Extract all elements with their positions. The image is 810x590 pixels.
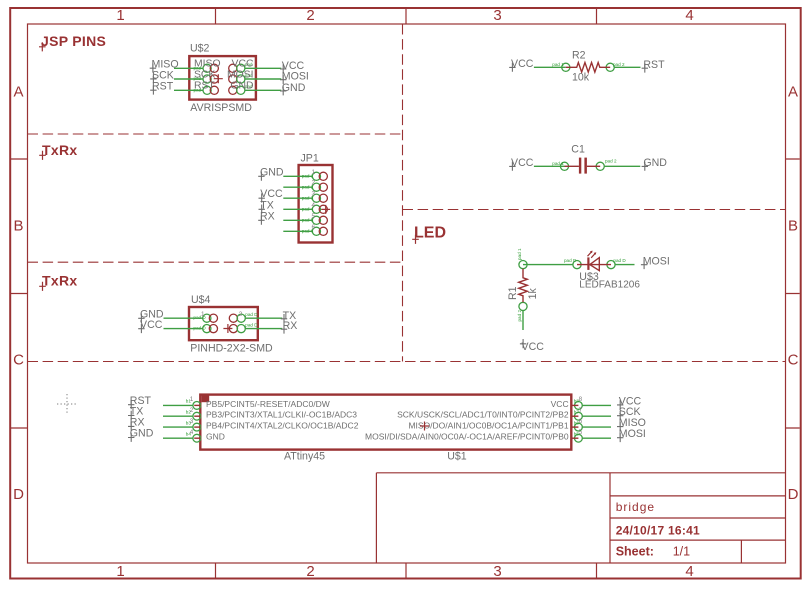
svg-text:A: A	[788, 84, 798, 101]
wire GND to U$1	[163, 437, 193, 439]
svg-text:D: D	[788, 486, 799, 503]
capacitor C1	[552, 143, 617, 173]
svg-text:6: 6	[579, 418, 583, 425]
svg-text:1/1: 1/1	[673, 544, 690, 558]
net label VCC	[509, 58, 534, 72]
net label RX	[281, 320, 298, 333]
net label VCC	[138, 319, 163, 333]
svg-text:7: 7	[579, 407, 583, 414]
wire JP1 pin 3	[283, 197, 312, 199]
section divider dashed above LED	[403, 209, 786, 211]
net label SCK	[150, 69, 174, 83]
wire R1 to LED	[523, 264, 573, 266]
wire JP1 pin 2	[283, 186, 312, 188]
svg-text:C: C	[13, 352, 24, 369]
svg-text:MISO/DO/AIN1/OC0B/OC1A/PCINT1/: MISO/DO/AIN1/OC0B/OC1A/PCINT1/PB1	[408, 421, 568, 431]
svg-text:1: 1	[116, 7, 124, 24]
net label GND	[258, 167, 284, 181]
wire U$2 to MOSI	[245, 78, 281, 80]
svg-text:SCK/USCK/SCL/ADC1/T0/INT0/PCIN: SCK/USCK/SCL/ADC1/T0/INT0/PCINT2/PB2	[397, 410, 569, 420]
svg-text:1k: 1k	[527, 288, 539, 300]
svg-text:1: 1	[116, 563, 124, 580]
svg-text:TxRx: TxRx	[42, 142, 77, 158]
svg-text:U$1: U$1	[447, 451, 467, 463]
svg-text:pad 2: pad 2	[613, 62, 625, 67]
wire U$1 to MISO	[582, 426, 611, 428]
svg-text:pad 1: pad 1	[552, 161, 564, 166]
svg-text:2: 2	[306, 563, 314, 580]
net label VCC	[509, 157, 534, 171]
svg-text:D: D	[13, 486, 24, 503]
svg-text:GND: GND	[282, 82, 306, 94]
wire GND to U$4	[164, 317, 203, 319]
section divider dashed below TxRx 1	[28, 261, 403, 263]
wire C1 to GND	[604, 165, 640, 167]
svg-text:U$2: U$2	[190, 43, 210, 55]
svg-text:pad 2: pad 2	[517, 310, 522, 322]
net label MISO	[617, 417, 646, 431]
svg-text:MOSI: MOSI	[282, 71, 309, 83]
wire LED to MOSI	[615, 264, 634, 266]
svg-text:JP1: JP1	[301, 152, 319, 164]
svg-text:B: B	[13, 218, 23, 235]
wire U$2 to VCC	[245, 67, 281, 69]
net label MOSI	[280, 71, 309, 84]
origin crosshair marker	[57, 394, 77, 414]
svg-text:pad 1: pad 1	[552, 62, 564, 67]
svg-text:pad D: pad D	[564, 258, 577, 263]
LED U$3 LEDFAB1206	[564, 251, 640, 291]
net label GND	[138, 309, 164, 323]
net label RST	[128, 395, 152, 409]
net label RST	[642, 59, 666, 72]
resistor R1 1k	[507, 248, 539, 321]
svg-text:SCK: SCK	[152, 69, 174, 81]
svg-text:MOSI: MOSI	[643, 255, 670, 267]
svg-text:3: 3	[312, 191, 316, 198]
net label GND	[128, 428, 154, 442]
frame column ticks bottom	[216, 563, 597, 578]
wire U$2 to GND	[245, 89, 281, 91]
svg-text:8: 8	[579, 396, 583, 403]
frame row ticks left	[11, 159, 28, 428]
svg-text:GND: GND	[206, 432, 225, 442]
wire U$1 to SCK	[582, 415, 611, 417]
svg-text:PB3/PCINT3/XTAL1/CLKI/-OC1B/AD: PB3/PCINT3/XTAL1/CLKI/-OC1B/ADC3	[206, 410, 357, 420]
section divider dashed above ATtiny45	[28, 361, 786, 363]
net label SCK	[617, 406, 641, 420]
svg-text:VCC: VCC	[551, 399, 569, 409]
svg-text:24/10/17 16:41: 24/10/17 16:41	[616, 524, 700, 538]
connector U$2 AVRISPSMD	[189, 43, 256, 114]
frame row ticks right	[786, 159, 800, 428]
svg-text:5: 5	[579, 429, 583, 436]
wire TX to U$1	[163, 415, 193, 417]
net label TX	[281, 310, 296, 323]
net label VCC	[259, 188, 284, 202]
svg-text:3: 3	[190, 418, 194, 425]
wire U$4 to RX	[245, 328, 282, 330]
net label TX	[128, 406, 143, 420]
svg-text:10k: 10k	[572, 72, 590, 84]
resistor R2	[552, 50, 625, 84]
svg-text:MOSI: MOSI	[619, 428, 646, 440]
svg-text:C1: C1	[571, 143, 585, 155]
svg-text:ATtiny45: ATtiny45	[284, 451, 325, 463]
net label RX	[258, 210, 275, 224]
wire JP1 pin 4	[283, 208, 312, 210]
svg-text:1: 1	[190, 396, 194, 403]
svg-text:A: A	[13, 84, 23, 101]
net label MOSI	[617, 428, 646, 442]
svg-text:4: 4	[312, 202, 316, 209]
net label GND	[280, 82, 306, 95]
svg-text:2: 2	[190, 407, 194, 414]
svg-text:1: 1	[312, 169, 316, 176]
wire RX to U$1	[163, 426, 193, 428]
wire VCC to R2	[534, 66, 566, 68]
net label VCC	[617, 395, 642, 409]
svg-text:pad D: pad D	[245, 323, 258, 328]
net label VCC	[280, 60, 305, 73]
svg-text:6: 6	[312, 224, 316, 231]
svg-text:VCC: VCC	[511, 157, 534, 169]
svg-text:B: B	[788, 218, 798, 235]
svg-text:2: 2	[312, 180, 316, 187]
svg-text:4: 4	[685, 7, 693, 24]
svg-text:4: 4	[190, 429, 194, 436]
svg-text:VCC: VCC	[522, 341, 545, 353]
svg-text:TxRx: TxRx	[42, 272, 77, 288]
net label GND	[642, 157, 668, 171]
frame column ticks top	[216, 9, 597, 24]
wire VCC to R1	[522, 311, 524, 331]
net label RX	[128, 417, 145, 431]
svg-text:C: C	[788, 352, 799, 369]
svg-text:pad D: pad D	[245, 312, 258, 317]
svg-text:4: 4	[685, 563, 693, 580]
wire MISO to U$2	[174, 67, 203, 69]
wire R2 to RST	[614, 66, 640, 68]
svg-text:RX: RX	[283, 320, 298, 332]
svg-text:R1: R1	[507, 286, 519, 300]
section divider dashed below JSP PINS	[28, 133, 403, 135]
wire JP1 pin 5	[283, 219, 312, 221]
connector U$4 PINHD-2X2-SMD	[189, 294, 273, 355]
net label VCC	[520, 339, 544, 353]
svg-text:3: 3	[493, 7, 501, 24]
net label MOSI	[641, 255, 670, 269]
wire JP1 pin 1	[283, 175, 312, 177]
svg-text:R2: R2	[572, 50, 586, 62]
wire VCC to U$4	[164, 328, 203, 330]
svg-text:5: 5	[312, 213, 316, 220]
svg-text:PINHD-2X2-SMD: PINHD-2X2-SMD	[190, 343, 273, 355]
svg-text:3: 3	[493, 563, 501, 580]
svg-text:PB5/PCINT5/-RESET/ADC0/DW: PB5/PCINT5/-RESET/ADC0/DW	[206, 399, 330, 409]
net label MISO	[150, 59, 179, 73]
svg-text:pad 2: pad 2	[605, 159, 617, 164]
svg-text:Sheet:: Sheet:	[616, 544, 654, 558]
net label TX	[259, 199, 274, 213]
svg-text:2: 2	[239, 311, 243, 318]
svg-text:VCC: VCC	[511, 58, 534, 70]
wire SCK to U$2	[174, 78, 203, 80]
svg-text:1: 1	[201, 311, 205, 318]
svg-text:JSP PINS: JSP PINS	[41, 33, 106, 49]
svg-text:2: 2	[306, 7, 314, 24]
wire U$1 to VCC	[582, 404, 611, 406]
IC U$1 ATtiny45	[186, 395, 583, 463]
wire JP1 pin 6	[283, 230, 312, 232]
svg-text:PB4/PCINT4/XTAL2/CLKO/OC1B/ADC: PB4/PCINT4/XTAL2/CLKO/OC1B/ADC2	[206, 421, 359, 431]
section divider vertical dashed	[402, 24, 404, 362]
svg-text:pad D: pad D	[613, 258, 626, 263]
svg-text:RST: RST	[643, 59, 665, 71]
svg-text:GND: GND	[643, 157, 667, 169]
wire U$4 to TX	[245, 317, 282, 319]
svg-text:RST: RST	[152, 81, 174, 93]
wire RST to U$2	[174, 89, 203, 91]
svg-text:bridge: bridge	[616, 500, 655, 514]
wire U$1 to MOSI	[582, 437, 611, 439]
svg-text:AVRISPSMD: AVRISPSMD	[190, 102, 252, 114]
wire VCC to C1	[534, 165, 565, 167]
wire RST to U$1	[163, 404, 193, 406]
svg-text:LEDFAB1206: LEDFAB1206	[579, 280, 640, 291]
net label RST	[150, 81, 174, 95]
connector JP1	[299, 152, 333, 242]
title block	[376, 473, 785, 563]
svg-text:MOSI/DI/SDA/AIN0/OC0A/-OC1A/AR: MOSI/DI/SDA/AIN0/OC0A/-OC1A/AREF/PCINT0/…	[365, 432, 569, 442]
svg-text:pad 1: pad 1	[517, 248, 522, 260]
svg-text:VCC: VCC	[140, 319, 163, 331]
svg-text:U$4: U$4	[191, 294, 211, 306]
